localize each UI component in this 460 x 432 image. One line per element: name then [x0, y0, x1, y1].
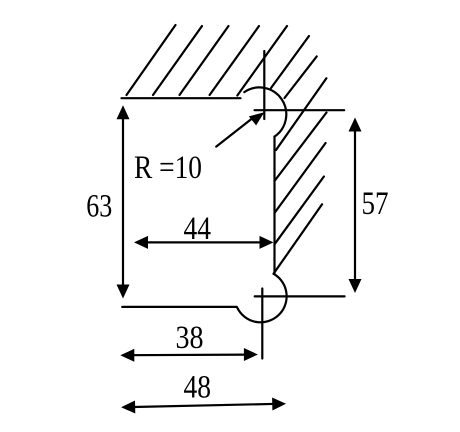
arrowhead 44 right	[260, 236, 274, 249]
part right edge	[273, 137, 275, 274]
bottom circle vertical centerline	[261, 289, 263, 359]
arrowhead 38 right	[244, 348, 258, 361]
arrowhead R10 leader	[249, 112, 264, 125]
fillet circle bottom	[237, 274, 286, 322]
arrowhead 38 left	[120, 349, 134, 362]
R10 leader line	[216, 117, 254, 147]
dimension 44 line	[140, 241, 267, 243]
top hatch line 5	[237, 26, 287, 96]
svg-text:63: 63	[86, 189, 112, 225]
right hatch line 1	[276, 78, 326, 150]
top circle horizontal centerline	[255, 109, 345, 111]
svg-text:57: 57	[362, 186, 389, 222]
top hatch line 3	[180, 26, 229, 95]
bottom circle horizontal centerline	[255, 295, 345, 297]
top hatch line 1	[127, 25, 176, 95]
top circle vertical centerline	[263, 51, 265, 119]
right hatch line 3	[275, 143, 326, 213]
arrowhead 44 left	[134, 236, 148, 249]
part bottom edge	[122, 306, 237, 308]
arrowhead 48 right	[272, 398, 286, 411]
dimension 57 line	[354, 125, 356, 286]
right hatch line 4	[275, 177, 324, 245]
right hatch line 5	[274, 204, 323, 273]
arrowhead 57 bottom	[349, 279, 362, 293]
top hatch line 2	[153, 26, 202, 95]
dimension 38 line	[127, 354, 251, 357]
svg-text:R =10: R =10	[134, 150, 202, 186]
part top edge	[122, 97, 241, 99]
fillet circle R10 top	[244, 87, 286, 136]
top hatch line 6	[271, 36, 309, 88]
arrowhead 63 bottom	[117, 285, 130, 299]
arrowhead 57 top	[349, 118, 362, 132]
dimension 63 line	[122, 112, 124, 291]
right hatch line 2	[275, 113, 327, 182]
svg-text:48: 48	[183, 370, 211, 406]
svg-text:38: 38	[176, 320, 204, 356]
arrowhead 48 left	[121, 401, 135, 414]
top hatch line 7	[285, 56, 317, 98]
svg-text:44: 44	[183, 211, 211, 247]
dimension 48 line	[128, 404, 279, 407]
top hatch line 4	[210, 26, 259, 95]
arrowhead 63 top	[117, 105, 130, 119]
